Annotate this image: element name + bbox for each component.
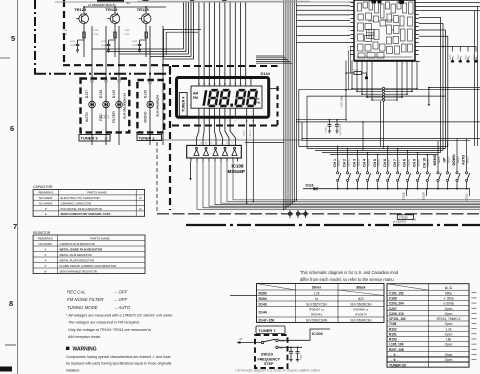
- label TUNER 4 box: [179, 93, 187, 116]
- svg-text:R153: R153: [389, 338, 397, 342]
- svg-text:po: po: [412, 41, 414, 43]
- svg-text:SLV-56ZYC3H: SLV-56ZYC3H: [306, 302, 327, 306]
- svg-text:X 6: X 6: [412, 217, 417, 221]
- wire lower contact: [278, 346, 302, 348]
- svg-text:1.2k: 1.2k: [313, 291, 319, 295]
- svg-text:WARNING: WARNING: [73, 347, 97, 353]
- svg-text:SW102: SW102: [348, 159, 350, 167]
- svg-text:METAL FILM RESISTOR: METAL FILM RESISTOR: [60, 253, 92, 257]
- svg-text:po: po: [412, 6, 414, 8]
- svg-text:Components having special char: Components having special characteristic…: [66, 355, 171, 359]
- switch CH10 SW100: [426, 155, 428, 172]
- wire horizontal y57 links: [92, 48, 184, 50]
- wire left of table: [230, 295, 257, 297]
- margin tick: [5, 344, 16, 346]
- right edge verticals: [477, 7, 479, 147]
- connector to switch bus verticals: [380, 101, 382, 147]
- IC108 bottom pins: [190, 158, 192, 162]
- dashed vertical x157: [156, 142, 158, 213]
- U C destination table: [387, 284, 477, 368]
- chain line bottom: [186, 224, 480, 226]
- svg-text:C149: C149: [93, 34, 99, 36]
- svg-text:po: po: [412, 26, 414, 28]
- svg-text:C209, 210: C209, 210: [389, 312, 404, 316]
- resistor R281: [83, 32, 85, 38]
- diode D119: [406, 189, 408, 196]
- svg-text:1: 1: [348, 11, 349, 13]
- svg-text:AM reception mode.: AM reception mode.: [67, 335, 101, 339]
- board dashed bottom border: [157, 213, 480, 215]
- wires connector right up to IC: [416, 61, 418, 89]
- svg-text:po: po: [412, 56, 414, 58]
- part number black label: [97, 0, 124, 3]
- svg-text:→ ② ←: → ② ←: [389, 358, 400, 362]
- svg-text:The voltages are measured in F: The voltages are measured in FM receptio…: [68, 321, 140, 325]
- svg-text:oc: oc: [355, 30, 357, 32]
- svg-text:AUTO: AUTO: [462, 155, 466, 165]
- wire bundle display-to-bus: [283, 0, 285, 209]
- svg-text:14: 14: [205, 143, 207, 145]
- svg-text:TUNER 3: TUNER 3: [81, 136, 99, 141]
- svg-text:R294: R294: [259, 297, 267, 301]
- svg-text:+B: +B: [239, 337, 243, 341]
- svg-text:Black: Black: [356, 286, 365, 290]
- svg-text:FILTER: FILTER: [112, 111, 116, 123]
- svg-text:18k: 18k: [446, 338, 452, 342]
- wire loops from display area: [299, 88, 480, 90]
- switch MEMO SW111: [437, 141, 439, 172]
- svg-text:IF00456 or: IF00456 or: [354, 308, 369, 312]
- svg-text:-! Schematic diagram is a driv: -! Schematic diagram is a driver or chas…: [234, 369, 320, 373]
- svg-text:oc: oc: [355, 40, 357, 42]
- svg-text:po: po: [412, 21, 414, 23]
- switch bottom bus: [303, 188, 470, 190]
- svg-text:or 152473: or 152473: [393, 219, 406, 223]
- svg-text:→ AUTO: → AUTO: [113, 305, 131, 310]
- capacitor: [139, 40, 141, 44]
- svg-text:oc: oc: [355, 20, 357, 22]
- svg-text:Open: Open: [445, 322, 453, 326]
- svg-text:R102: R102: [389, 327, 397, 331]
- label 1T5006 or 152473 X6: [397, 215, 413, 220]
- IC101 left wires to bundle: [296, 5, 350, 7]
- svg-text:Open: Open: [445, 307, 453, 311]
- svg-text:po: po: [412, 31, 414, 33]
- svg-text:1k: 1k: [315, 297, 319, 301]
- svg-text:Open: Open: [445, 343, 453, 347]
- switch CH3 SW103: [357, 151, 359, 172]
- svg-text:SFE10, 7MMH-Z: SFE10, 7MMH-Z: [437, 317, 461, 321]
- svg-text:C149: C149: [93, 30, 99, 32]
- TUNER 7 label box: [256, 326, 285, 334]
- svg-text:oc: oc: [355, 35, 357, 37]
- svg-text:⊙1600p: ⊙1600p: [443, 302, 455, 306]
- switch CH1 SW101: [337, 147, 339, 172]
- svg-text:C149: C149: [124, 34, 130, 36]
- svg-text:SW103: SW103: [358, 159, 360, 167]
- svg-text:TUNING MODE: TUNING MODE: [67, 305, 98, 310]
- svg-text:PARTS NAME: PARTS NAME: [87, 191, 106, 195]
- wires to bus from mid: [362, 122, 364, 151]
- svg-text:8: 8: [9, 299, 13, 308]
- switch CH8 SW108: [407, 151, 409, 172]
- transistor TR123: [76, 13, 88, 24]
- svg-text:CAPACITOR: CAPACITOR: [33, 185, 53, 189]
- IC101 bottom pin wires: [354, 61, 420, 63]
- svg-text:D137: D137: [85, 90, 89, 98]
- svg-text:1: 1: [348, 27, 349, 29]
- svg-text:SLR-34(U)R(3H X3: SLR-34(U)R(3H X3: [123, 93, 127, 119]
- svg-text:1.24 X 3: 1.24 X 3: [250, 129, 252, 138]
- svg-text:This schematic diagram is for: This schematic diagram is for U.S. and C…: [300, 270, 399, 275]
- LED D146: [147, 101, 154, 108]
- wire SW119 to IC106: [278, 329, 330, 340]
- svg-text:CERAMIC CAPACITOR: CERAMIC CAPACITOR: [61, 201, 92, 205]
- capacitor: [77, 40, 79, 44]
- svg-text:ELECTROLYTIC CAPACITOR: ELECTROLYTIC CAPACITOR: [61, 196, 100, 200]
- svg-text:1k: 1k: [468, 56, 470, 58]
- IC108 buffer gates: [194, 150, 199, 156]
- transistor TR125: [139, 13, 151, 24]
- long wire y122: [296, 121, 480, 123]
- svg-text:U, C: U, C: [445, 286, 453, 290]
- svg-text:TUNER 7: TUNER 7: [259, 328, 277, 333]
- diode D120: [426, 189, 428, 196]
- svg-text:CH 8: CH 8: [403, 159, 407, 167]
- svg-text:SW113: SW113: [458, 156, 460, 164]
- svg-text:C149: C149: [124, 30, 130, 32]
- svg-text:1: 1: [348, 39, 349, 41]
- LED D138: [103, 101, 110, 108]
- svg-text:1.2k: 1.2k: [445, 327, 451, 331]
- svg-text:MEMO: MEMO: [433, 154, 437, 165]
- svg-text:C318: C318: [288, 354, 290, 360]
- transistor TR124: [108, 13, 120, 24]
- svg-text:820: 820: [358, 297, 364, 301]
- svg-text:4.5M: 4.5M: [280, 341, 285, 343]
- svg-text:SLV-56URC3H: SLV-56URC3H: [350, 318, 372, 322]
- svg-text:MONO: MONO: [143, 111, 147, 122]
- feedthrough capacitors on border: [289, 210, 291, 218]
- display enclosure dashed right: [277, 86, 279, 125]
- svg-text:SW105: SW105: [379, 159, 381, 167]
- connector pins: [382, 87, 384, 89]
- svg-text:STEP: STEP: [264, 362, 274, 366]
- svg-text:SEMI CONDUCTIVE CERAMIC CAPA: SEMI CONDUCTIVE CERAMIC CAPA: [61, 212, 112, 216]
- svg-text:9: 9: [232, 143, 233, 145]
- connector right wires: [385, 87, 417, 89]
- svg-text:7: 7: [13, 222, 17, 231]
- svg-text:D120: D120: [422, 192, 426, 200]
- IC101 internal wires: [368, 20, 374, 22]
- svg-text:D144: D144: [259, 310, 267, 314]
- TUNER 2 label box: [137, 135, 162, 141]
- switch CH9 SW109: [417, 153, 419, 172]
- margin tick: [0, 57, 10, 59]
- IC108 ground stub: [190, 162, 192, 179]
- svg-text:TUNER (3): TUNER (3): [389, 363, 406, 367]
- svg-text:po: po: [412, 16, 414, 18]
- display top pin wires: [198, 2, 200, 77]
- svg-text:C166: C166: [326, 127, 328, 133]
- svg-text:CH 4: CH 4: [363, 159, 367, 167]
- svg-text:po: po: [412, 46, 414, 48]
- decimal point: [230, 104, 233, 107]
- svg-text:C149: C149: [62, 30, 68, 32]
- svg-text:D146: D146: [143, 90, 147, 98]
- diode D121: [469, 189, 471, 196]
- IC101 controller box: [354, 0, 415, 61]
- svg-text:C149: C149: [62, 34, 68, 36]
- IC108 box: [187, 145, 242, 158]
- svg-text:D143: D143: [259, 302, 267, 306]
- svg-text:1k: 1k: [453, 56, 455, 58]
- display top pins: [198, 77, 200, 86]
- svg-text:D138: D138: [99, 90, 103, 98]
- svg-text:REMARKS: REMARKS: [38, 191, 53, 195]
- svg-text:CH 1: CH 1: [333, 159, 337, 167]
- svg-text:CH 2: CH 2: [343, 159, 347, 167]
- svg-text:SW100: SW100: [428, 159, 430, 167]
- svg-text:SW114: SW114: [467, 156, 469, 164]
- svg-text:CH 7: CH 7: [393, 159, 397, 167]
- svg-text:Open: Open: [445, 312, 453, 316]
- wire TR to tuner blocks: [91, 26, 93, 145]
- svg-text:IF00441: IF00441: [311, 312, 323, 316]
- svg-text:POLYESTEL FILM CAPACITOR: POLYESTEL FILM CAPACITOR: [61, 207, 102, 211]
- svg-text:SW112: SW112: [448, 156, 450, 164]
- svg-text:METAL PLATE RESISTOR: METAL PLATE RESISTOR: [60, 258, 95, 262]
- settings note text: [66, 290, 173, 340]
- LED D139: [116, 101, 123, 108]
- svg-text:* All voltages are measured wi: * All voltages are measured with a 10MΩ/…: [66, 313, 173, 317]
- svg-text:REMARKS: REMARKS: [38, 237, 53, 241]
- resistor R282: [114, 32, 116, 38]
- switch CH6 SW106: [387, 147, 389, 172]
- svg-text:PARTS NAME: PARTS NAME: [90, 237, 109, 241]
- svg-text:D147~156: D147~156: [259, 318, 275, 322]
- wire IC101 left pins drop: [349, 47, 351, 74]
- svg-text:SW109: SW109: [418, 159, 420, 167]
- display enclosure dashed top: [172, 65, 278, 67]
- svg-text:R-101: R-101: [353, 69, 359, 71]
- wire y89 junction: [429, 87, 480, 89]
- svg-text:TR124: TR124: [106, 7, 119, 12]
- svg-text:T106: T106: [389, 322, 396, 326]
- junction wire right: [419, 46, 443, 48]
- resistor capacitor cluster top right: [443, 46, 476, 48]
- svg-text:R297, 298: R297, 298: [389, 348, 404, 352]
- svg-text:oc: oc: [355, 15, 357, 17]
- resistor R283: [145, 32, 147, 38]
- svg-text:●: ●: [45, 212, 47, 216]
- svg-text:10/16: 10/16: [70, 45, 76, 47]
- svg-text:10/16: 10/16: [132, 41, 138, 43]
- svg-text:10/16: 10/16: [132, 45, 138, 47]
- svg-text:680p: 680p: [445, 291, 452, 295]
- svg-text:SW108: SW108: [408, 159, 410, 167]
- wire IC101 to ground RC: [345, 61, 347, 120]
- IC101 right wires to right bundle: [419, 18, 441, 153]
- svg-text:MS516P: MS516P: [228, 169, 245, 174]
- display bottom pins: [198, 108, 200, 118]
- svg-text:SW111: SW111: [439, 156, 441, 164]
- svg-text:1k: 1k: [476, 56, 478, 58]
- switch SW119: [261, 341, 263, 343]
- wire display col 246 down: [246, 118, 248, 203]
- wire +B entry: [237, 342, 261, 344]
- switch CH2 SW102: [347, 149, 349, 172]
- svg-text:CH 9: CH 9: [413, 159, 417, 167]
- svg-text:C169: C169: [389, 297, 397, 301]
- wire display col 253 down: [252, 118, 254, 202]
- svg-text:CH 3: CH 3: [353, 159, 357, 167]
- switch top bus lines: [299, 146, 448, 148]
- switch CH4 SW104: [367, 153, 369, 172]
- switch CH7 SW107: [397, 149, 399, 172]
- svg-text:FREQUENCY: FREQUENCY: [258, 357, 281, 361]
- TUNER 3 label box: [79, 135, 110, 142]
- svg-text:C203, 204: C203, 204: [389, 302, 404, 306]
- IC101 internal blocks: [358, 3, 362, 11]
- svg-text:→ OFF: → OFF: [113, 290, 127, 295]
- switch UP SW112: [447, 141, 449, 172]
- svg-text:oc: oc: [355, 25, 357, 27]
- IC101 right pins: [415, 2, 419, 4]
- svg-text:installed.: installed.: [66, 368, 80, 372]
- svg-text:IC108: IC108: [232, 163, 245, 168]
- svg-text:→ ① ←: → ① ←: [389, 353, 400, 357]
- svg-text:po: po: [412, 51, 414, 53]
- svg-text:D139: D139: [112, 90, 116, 98]
- svg-text:R151: R151: [389, 332, 397, 336]
- svg-text:Open: Open: [445, 332, 453, 336]
- svg-text:SW104: SW104: [368, 159, 370, 167]
- display enclosure dashed bottom: [172, 125, 278, 127]
- wire y142 to bundle: [245, 142, 284, 144]
- svg-text:CARBON FILM RESISTOR: CARBON FILM RESISTOR: [60, 242, 95, 246]
- svg-text:REC CAL: REC CAL: [67, 290, 86, 295]
- svg-text:1: 1: [348, 23, 349, 25]
- switch DOWN SW113: [456, 139, 458, 172]
- long wires y138-140: [302, 138, 480, 140]
- svg-text:IF00474: IF00474: [355, 312, 367, 316]
- svg-text:D119: D119: [402, 192, 406, 199]
- svg-text:TUNER 4: TUNER 4: [181, 97, 185, 112]
- display bottom wires to IC108: [197, 118, 199, 145]
- svg-text:L105, 106: L105, 106: [389, 343, 404, 347]
- svg-text:R293: R293: [259, 291, 267, 295]
- svg-text:TR123: TR123: [74, 7, 87, 12]
- svg-text:1k: 1k: [461, 56, 463, 58]
- connector left wires: [352, 87, 382, 89]
- silver black parts table: [257, 284, 385, 323]
- tiny pin numbers: [90, 80, 93, 82]
- TUNER 3 board dashed box: [81, 79, 130, 133]
- board outline dashed vertical left: [63, 0, 65, 64]
- svg-text:C151, 152: C151, 152: [389, 291, 404, 295]
- LED D137: [89, 101, 96, 108]
- svg-text:SLV-56URC3H: SLV-56URC3H: [350, 302, 372, 306]
- svg-text:FLAME PROOF CARBON FILM RESIST: FLAME PROOF CARBON FILM RESISTOR: [60, 264, 117, 268]
- svg-text:6: 6: [10, 124, 14, 133]
- IC101 right wires to edge: [419, 2, 480, 4]
- gray top line: [55, 1, 353, 3]
- svg-text:NO MARK: NO MARK: [39, 242, 53, 246]
- wire emitter drops: [83, 24, 85, 58]
- svg-text:SW119: SW119: [261, 352, 273, 356]
- svg-text:IC106: IC106: [312, 331, 323, 336]
- svg-text:✳ 390p: ✳ 390p: [443, 297, 454, 301]
- svg-text:METAL OXIDE FILM RESISTOR: METAL OXIDE FILM RESISTOR: [60, 247, 103, 251]
- board outline dashed top: [63, 64, 170, 66]
- svg-text:1: 1: [348, 19, 349, 21]
- display right wire and arrow: [269, 88, 276, 90]
- svg-text:oc: oc: [355, 5, 357, 7]
- svg-text:oc: oc: [355, 45, 357, 47]
- svg-text:D144: D144: [261, 71, 271, 76]
- top edge black labels: [372, 0, 377, 3]
- display module outer box D144: [177, 78, 269, 118]
- board outline chain corner: [34, 73, 171, 75]
- svg-text:MHz: MHz: [254, 100, 261, 104]
- capacitor cluster C166 C167: [296, 119, 345, 121]
- svg-text:po: po: [412, 36, 414, 38]
- svg-text:RESISTOR: RESISTOR: [33, 231, 51, 235]
- svg-text:be replaced with parts having: be replaced with parts having specificat…: [66, 362, 172, 366]
- svg-text:1: 1: [348, 31, 349, 33]
- board outline chain vertical: [34, 0, 36, 74]
- capacitor: [108, 40, 110, 44]
- svg-text:D118: D118: [306, 183, 314, 187]
- svg-text:1: 1: [348, 43, 349, 45]
- svg-text:CH 10: CH 10: [423, 158, 427, 168]
- svg-text:oc: oc: [355, 55, 357, 57]
- warning text block: [66, 347, 172, 373]
- wire corners display top right: [256, 55, 284, 57]
- svg-text:DOWN: DOWN: [452, 154, 456, 166]
- svg-text:10: 10: [226, 143, 228, 145]
- svg-text:5: 5: [11, 34, 15, 43]
- svg-text:Only the voltage at TR104~TR11: Only the voltage at TR104~TR111 are meas…: [68, 328, 151, 332]
- svg-text:NO MARK: NO MARK: [39, 196, 53, 200]
- display board dashed outline: [169, 66, 171, 210]
- IC101 left pins: [350, 2, 354, 4]
- svg-text:CH 6: CH 6: [383, 159, 387, 167]
- resistor legend table: [33, 231, 145, 274]
- svg-text:15: 15: [200, 143, 202, 145]
- IC108 output stair wires: [197, 162, 480, 210]
- svg-text:13: 13: [210, 143, 212, 145]
- wire corner loop left of display: [164, 30, 202, 58]
- display digits 188.88: [202, 90, 207, 106]
- svg-text:1: 1: [348, 47, 349, 49]
- svg-text:SW101: SW101: [339, 159, 341, 167]
- svg-text:TR125: TR125: [137, 7, 150, 12]
- svg-text:Open: Open: [445, 358, 453, 362]
- IC101 internal grid block: [367, 30, 375, 39]
- TUNER 7 dashed box: [255, 335, 288, 368]
- svg-text:C221: C221: [243, 130, 245, 136]
- sheet edge line: [17, 0, 19, 374]
- svg-text:R318: R318: [301, 354, 303, 360]
- svg-text:D121: D121: [465, 193, 469, 201]
- svg-text:AUTO: AUTO: [85, 112, 89, 122]
- svg-text:differ from each model, so ref: differ from each model, so refer to the …: [300, 277, 394, 282]
- svg-text:REC: REC: [99, 113, 103, 121]
- svg-text:CH 5: CH 5: [373, 159, 377, 167]
- svg-text:Silver: Silver: [312, 286, 322, 290]
